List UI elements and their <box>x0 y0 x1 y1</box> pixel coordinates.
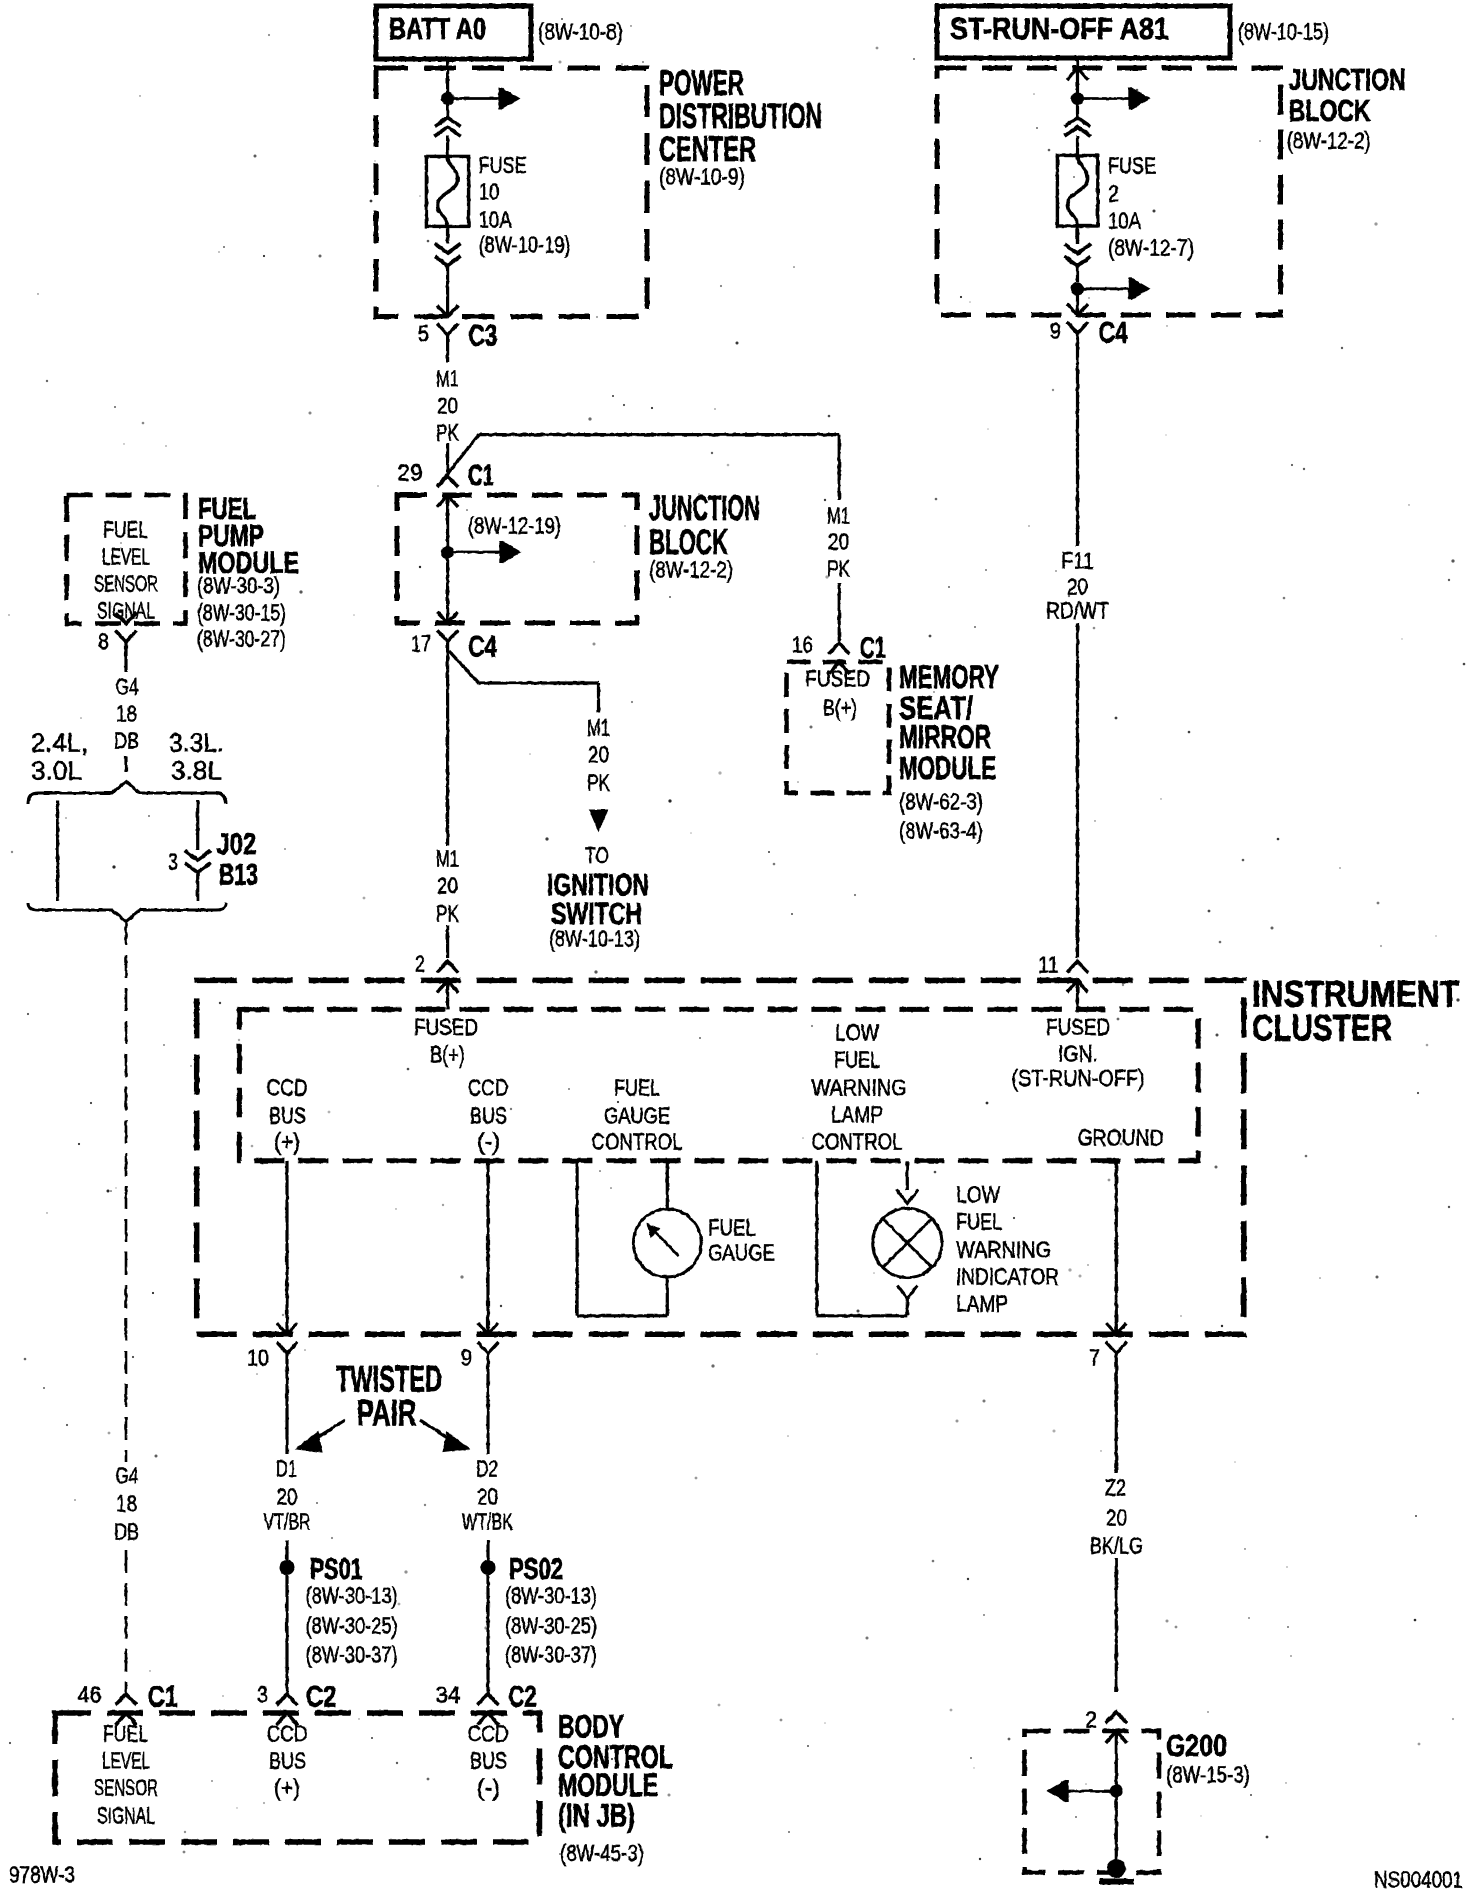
fuse 2 (10A) <box>1057 156 1097 227</box>
svg-text:3: 3 <box>168 848 178 874</box>
ground symbol G200 <box>1107 1859 1126 1878</box>
fuse 10 (10A) <box>426 156 468 226</box>
connector 46 C1 (BCM) <box>116 1694 137 1705</box>
wire Z2 from pin 7 <box>1115 1353 1118 1473</box>
svg-text:20: 20 <box>588 741 609 767</box>
svg-text:SENSOR: SENSOR <box>94 1774 158 1800</box>
splice PS02 <box>481 1560 496 1575</box>
svg-text:20: 20 <box>437 392 458 418</box>
wire D2 from pin 9 <box>486 1353 489 1454</box>
svg-text:C1: C1 <box>468 459 494 492</box>
svg-text:20: 20 <box>1106 1504 1127 1530</box>
arrow TO IGNITION SWITCH <box>590 810 608 831</box>
svg-text:LEVEL: LEVEL <box>102 543 150 569</box>
svg-text:GAUGE: GAUGE <box>604 1102 670 1128</box>
svg-text:PK: PK <box>827 555 850 581</box>
connector 17 C4 (junction block output) <box>437 612 458 623</box>
svg-text:C3: C3 <box>469 319 498 352</box>
svg-text:B13: B13 <box>219 859 258 892</box>
wire inside G200 <box>1115 1731 1118 1861</box>
svg-text:PK: PK <box>436 900 459 926</box>
svg-text:(8W-12-2): (8W-12-2) <box>649 556 733 582</box>
svg-text:(8W-10-19): (8W-10-19) <box>479 231 571 257</box>
svg-text:FUEL: FUEL <box>103 1720 148 1746</box>
wire fuel gauge loop right leg <box>666 1277 669 1316</box>
svg-text:GROUND: GROUND <box>1078 1124 1164 1150</box>
svg-text:FUSED: FUSED <box>1046 1014 1110 1040</box>
junction block box (8W-12-19) <box>397 495 637 623</box>
svg-text:(-): (-) <box>477 1774 500 1800</box>
fuel gauge meter circle <box>633 1209 701 1277</box>
svg-text:978W-3: 978W-3 <box>9 1861 75 1887</box>
svg-text:CCD: CCD <box>468 1720 509 1746</box>
wire G4 dashed long run <box>125 922 128 1462</box>
fuel gauge needle <box>653 1230 679 1256</box>
svg-text:BATT A0: BATT A0 <box>389 11 486 46</box>
svg-text:CONTROL: CONTROL <box>812 1128 903 1154</box>
svg-text:(8W-30-13): (8W-30-13) <box>505 1582 597 1608</box>
svg-text:C2: C2 <box>306 1681 337 1714</box>
svg-text:BUS: BUS <box>470 1747 507 1773</box>
wire F11 20 RD/WT <box>1076 334 1079 547</box>
svg-text:FUEL: FUEL <box>708 1214 756 1240</box>
svg-text:(-): (-) <box>477 1128 500 1154</box>
wire D2 to BCM <box>486 1575 489 1692</box>
svg-text:FUEL: FUEL <box>614 1074 660 1100</box>
svg-text:RD/WT: RD/WT <box>1046 597 1109 623</box>
wire CCD bus + inside cluster <box>285 1161 288 1335</box>
svg-text:10A: 10A <box>479 206 513 232</box>
svg-text:PS01: PS01 <box>310 1553 363 1586</box>
memory seat mirror module box <box>787 662 890 793</box>
wire D1 to BCM <box>285 1575 288 1692</box>
svg-text:B(+): B(+) <box>823 694 857 720</box>
wire low fuel lamp loop left leg <box>815 1161 818 1316</box>
svg-text:(8W-10-8): (8W-10-8) <box>538 18 623 44</box>
wire horizontal to memory seat module <box>479 433 839 436</box>
svg-text:C2: C2 <box>509 1681 537 1714</box>
wire BATT A0 to fuse 10 <box>446 61 449 93</box>
wire right engine branch <box>196 800 199 850</box>
svg-text:FUSED: FUSED <box>805 665 870 691</box>
svg-text:(IN JB): (IN JB) <box>558 1798 635 1834</box>
svg-text:(8W-30-13): (8W-30-13) <box>306 1582 398 1608</box>
svg-text:PK: PK <box>587 769 610 795</box>
svg-text:(8W-12-19): (8W-12-19) <box>468 512 561 538</box>
wire ground inside cluster <box>1115 1161 1118 1335</box>
wire arrow to other circuits <box>448 97 499 100</box>
svg-text:10A: 10A <box>1108 207 1142 233</box>
wire horizontal ignition branch <box>479 681 599 684</box>
svg-text:FUEL: FUEL <box>103 516 148 542</box>
svg-text:D2: D2 <box>476 1455 498 1481</box>
engine split top brace <box>28 782 226 805</box>
svg-text:(+): (+) <box>274 1128 300 1154</box>
connector chevrons J02 B13 <box>185 851 211 861</box>
svg-text:LOW: LOW <box>956 1181 1000 1207</box>
wire A81 into junction block <box>1076 60 1079 93</box>
connector 29 C1 (junction block input) <box>437 476 458 487</box>
svg-text:(8W-10-13): (8W-10-13) <box>549 925 640 951</box>
svg-text:M1: M1 <box>587 714 610 740</box>
wire fuel gauge loop bottom <box>577 1314 667 1317</box>
lamp terminal chevron top <box>896 1190 918 1204</box>
wire CCD bus - inside cluster <box>486 1161 489 1335</box>
svg-text:18: 18 <box>116 700 137 726</box>
svg-text:(8W-12-7): (8W-12-7) <box>1108 234 1194 260</box>
svg-text:WARNING: WARNING <box>956 1236 1051 1262</box>
svg-text:G200: G200 <box>1166 1728 1227 1763</box>
svg-text:IGN.: IGN. <box>1058 1040 1098 1066</box>
svg-text:2: 2 <box>1085 1706 1097 1732</box>
svg-text:CLUSTER: CLUSTER <box>1252 1008 1392 1049</box>
svg-text:FUSED: FUSED <box>414 1014 478 1040</box>
junction block box right <box>937 68 1281 315</box>
connector 8 (fuel pump output) <box>116 613 137 624</box>
svg-text:VT/BR: VT/BR <box>264 1508 311 1534</box>
twisted pair arrow right <box>420 1420 452 1441</box>
svg-text:C1: C1 <box>148 1681 178 1714</box>
wire low fuel lamp top stub <box>906 1161 909 1190</box>
connector 3 C2 (BCM) <box>277 1694 298 1705</box>
svg-text:C4: C4 <box>468 631 497 664</box>
svg-text:9: 9 <box>461 1344 472 1370</box>
wire arrow right JB lower <box>1078 287 1130 290</box>
svg-text:3.0L: 3.0L <box>31 756 82 786</box>
svg-text:16: 16 <box>792 631 813 657</box>
wire fuel gauge top stub <box>666 1161 669 1209</box>
svg-text:TO: TO <box>585 842 609 868</box>
wire arrow right JB upper <box>1078 97 1130 100</box>
svg-text:(8W-30-27): (8W-30-27) <box>197 625 286 651</box>
connector 2 (G200) <box>1106 1712 1127 1723</box>
svg-text:(8W-30-3): (8W-30-3) <box>197 572 280 598</box>
svg-text:46: 46 <box>78 1681 102 1707</box>
svg-text:LAMP: LAMP <box>956 1290 1008 1316</box>
svg-text:C4: C4 <box>1099 316 1128 349</box>
wire inside junction block <box>446 495 449 623</box>
svg-text:GAUGE: GAUGE <box>708 1239 775 1265</box>
svg-text:(8W-30-25): (8W-30-25) <box>505 1612 597 1638</box>
connector chevrons above fuse 10 <box>435 118 461 127</box>
wire arrow left in G200 <box>1068 1790 1116 1793</box>
wire lamp bottom stub <box>906 1299 909 1316</box>
svg-text:F11: F11 <box>1061 547 1094 573</box>
svg-text:WT/BK: WT/BK <box>462 1508 513 1534</box>
svg-text:M1: M1 <box>827 502 850 528</box>
svg-text:D1: D1 <box>276 1455 297 1481</box>
svg-text:M1: M1 <box>436 365 459 391</box>
connector pin 2 instrument cluster <box>437 961 458 972</box>
wire M1 20 PK upper segment <box>446 335 449 362</box>
svg-text:M1: M1 <box>436 845 459 871</box>
wire fuel gauge loop left leg <box>575 1161 578 1316</box>
wire below fuse 2 <box>1076 226 1079 244</box>
svg-text:8: 8 <box>98 628 109 654</box>
connector 34 C2 (BCM) <box>478 1694 499 1705</box>
svg-text:(8W-12-2): (8W-12-2) <box>1287 127 1371 153</box>
svg-text:9: 9 <box>1050 317 1061 343</box>
splice PS01 <box>280 1560 295 1575</box>
connector 9 C4 (JB output) <box>1067 304 1088 315</box>
svg-text:INDICATOR: INDICATOR <box>956 1263 1059 1289</box>
svg-text:10: 10 <box>247 1344 269 1370</box>
svg-text:J02: J02 <box>216 828 256 861</box>
svg-text:C1: C1 <box>860 632 886 665</box>
svg-text:PAIR: PAIR <box>357 1393 417 1434</box>
svg-text:LAMP: LAMP <box>831 1101 883 1127</box>
svg-text:(ST-RUN-OFF): (ST-RUN-OFF) <box>1012 1065 1145 1091</box>
connector chevrons below fuse 2 <box>1065 244 1091 254</box>
svg-text:2: 2 <box>415 950 425 976</box>
svg-text:(8W-10-15): (8W-10-15) <box>1238 18 1329 44</box>
engine split bottom brace <box>28 903 226 922</box>
connector pin 7 cluster output <box>1106 1342 1127 1353</box>
node BATT A0 feed box <box>376 6 531 59</box>
svg-text:SENSOR: SENSOR <box>94 570 158 596</box>
instrument cluster inner detail box <box>239 1009 1198 1160</box>
wire stub below pin 8 <box>124 642 127 672</box>
svg-text:(+): (+) <box>274 1774 300 1800</box>
svg-text:FUEL: FUEL <box>956 1208 1002 1234</box>
power distribution center box <box>376 68 647 317</box>
connector chevron at JB top <box>1067 68 1088 80</box>
svg-text:G4: G4 <box>116 1462 139 1488</box>
node splice in junction block <box>441 546 454 559</box>
connector pin 11 instrument cluster <box>1067 961 1088 972</box>
svg-text:2.4L,: 2.4L, <box>31 728 88 758</box>
wire below fuse 10 <box>446 226 449 243</box>
svg-text:(8W-15-3): (8W-15-3) <box>1166 1761 1250 1787</box>
svg-text:BUS: BUS <box>269 1747 306 1773</box>
wire D1 from pin 10 <box>285 1353 288 1454</box>
svg-text:PK: PK <box>436 419 459 445</box>
svg-text:34: 34 <box>436 1681 461 1707</box>
wire left engine branch <box>56 800 59 901</box>
svg-text:LEVEL: LEVEL <box>102 1747 150 1773</box>
svg-text:G4: G4 <box>116 673 139 699</box>
connector 5 C3 (PDC output) <box>437 306 458 317</box>
wire low fuel lamp loop bottom <box>817 1314 908 1317</box>
wire M1 into junction block <box>446 443 449 478</box>
svg-text:(8W-30-37): (8W-30-37) <box>306 1641 398 1667</box>
node ST-RUN-OFF A81 feed box <box>937 6 1230 58</box>
svg-text:20: 20 <box>277 1483 298 1509</box>
svg-text:PS02: PS02 <box>509 1553 563 1586</box>
svg-text:BUS: BUS <box>470 1102 507 1128</box>
connector pin 10 cluster output <box>277 1342 298 1353</box>
svg-text:FUEL: FUEL <box>834 1046 880 1072</box>
svg-text:BLOCK: BLOCK <box>1289 93 1371 128</box>
wire branch diagonal to memory seat feed <box>441 435 479 482</box>
svg-text:JUNCTION: JUNCTION <box>1289 62 1406 97</box>
svg-text:10: 10 <box>479 178 500 204</box>
svg-text:11: 11 <box>1038 951 1059 977</box>
svg-text:CCD: CCD <box>468 1074 509 1100</box>
wire down ignition branch <box>597 683 600 712</box>
wire down to memory seat module <box>838 435 841 500</box>
svg-text:(8W-45-3): (8W-45-3) <box>560 1840 644 1866</box>
svg-text:ST-RUN-OFF A81: ST-RUN-OFF A81 <box>950 11 1169 46</box>
node splice right JB lower <box>1071 282 1084 295</box>
svg-text:3: 3 <box>257 1681 268 1707</box>
svg-text:(8W-30-25): (8W-30-25) <box>306 1612 398 1638</box>
svg-text:SIGNAL: SIGNAL <box>97 1802 155 1828</box>
svg-text:FUSE: FUSE <box>1108 152 1156 178</box>
svg-text:2: 2 <box>1108 180 1119 206</box>
svg-text:SIGNAL: SIGNAL <box>97 597 155 623</box>
node splice in G200 <box>1110 1785 1123 1798</box>
svg-text:18: 18 <box>116 1490 137 1516</box>
wire diagonal to ignition switch branch <box>449 651 479 683</box>
svg-text:CONTROL: CONTROL <box>592 1128 683 1154</box>
svg-text:(8W-62-3): (8W-62-3) <box>899 788 983 814</box>
node splice right JB upper <box>1071 92 1084 105</box>
node splice in PDC <box>441 92 454 105</box>
fuel pump module box <box>67 495 186 624</box>
connector chevrons above fuse 2 <box>1065 118 1091 127</box>
svg-text:3.8L: 3.8L <box>171 756 222 786</box>
svg-text:DB: DB <box>114 1518 139 1544</box>
connector chevrons below fuse 10 <box>435 244 461 254</box>
wire dash above engine split <box>124 756 127 772</box>
instrument cluster outer box <box>197 980 1244 1334</box>
svg-text:Z2: Z2 <box>1105 1474 1126 1500</box>
lamp X filament <box>883 1219 932 1268</box>
svg-text:MODULE: MODULE <box>899 750 996 786</box>
svg-text:(8W-10-9): (8W-10-9) <box>659 163 745 189</box>
body control module box <box>55 1713 540 1842</box>
svg-text:29: 29 <box>397 459 423 485</box>
connector 16 C1 memory seat <box>829 643 850 654</box>
svg-text:20: 20 <box>477 1483 498 1509</box>
svg-text:3.3L.: 3.3L. <box>169 728 224 758</box>
low fuel warning indicator lamp <box>873 1208 942 1277</box>
svg-text:NS004001: NS004001 <box>1374 1866 1463 1890</box>
svg-text:LOW: LOW <box>835 1019 879 1045</box>
svg-text:20: 20 <box>828 528 849 554</box>
svg-text:CCD: CCD <box>267 1720 308 1746</box>
svg-text:17: 17 <box>411 630 431 656</box>
svg-text:WARNING: WARNING <box>812 1074 907 1100</box>
svg-text:20: 20 <box>437 872 458 898</box>
svg-text:BK/LG: BK/LG <box>1090 1532 1143 1558</box>
svg-text:DB: DB <box>114 727 139 753</box>
wire G4 dashed to BCM <box>125 1550 128 1692</box>
svg-text:(8W-63-4): (8W-63-4) <box>899 817 983 843</box>
svg-text:(8W-30-15): (8W-30-15) <box>197 599 286 625</box>
svg-text:B(+): B(+) <box>430 1041 465 1067</box>
wire M1 from C4 down to instrument cluster <box>446 642 449 847</box>
connector pin 9 cluster output <box>478 1342 499 1353</box>
svg-text:(8W-30-37): (8W-30-37) <box>505 1641 597 1667</box>
svg-text:5: 5 <box>418 320 429 346</box>
svg-text:BUS: BUS <box>269 1102 306 1128</box>
svg-text:FUSE: FUSE <box>479 152 527 178</box>
wire arrow to other circuits in JB <box>448 551 500 554</box>
lamp terminal chevron bottom <box>897 1286 917 1299</box>
svg-text:7: 7 <box>1089 1344 1100 1370</box>
G200 ground box <box>1025 1731 1160 1873</box>
twisted pair arrow left <box>312 1420 345 1441</box>
svg-text:20: 20 <box>1067 573 1088 599</box>
svg-text:CCD: CCD <box>267 1074 308 1100</box>
